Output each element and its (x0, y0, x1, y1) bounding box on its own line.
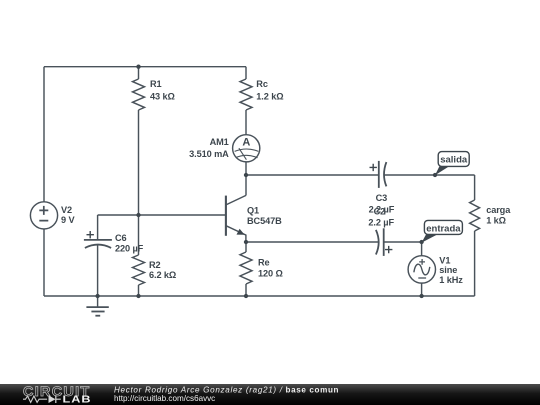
svg-text:9 V: 9 V (61, 215, 75, 225)
svg-text:C2: C2 (374, 206, 386, 216)
svg-text:salida: salida (440, 155, 468, 166)
svg-text:LAB: LAB (63, 394, 92, 405)
svg-text:R2: R2 (149, 260, 161, 270)
svg-text:Q1: Q1 (247, 206, 259, 216)
svg-text:2.2 µF: 2.2 µF (368, 217, 394, 227)
svg-text:1 kΩ: 1 kΩ (486, 215, 506, 225)
svg-text:6.2 kΩ: 6.2 kΩ (149, 270, 176, 280)
svg-text:http://circuitlab.com/cs6avvc: http://circuitlab.com/cs6avvc (114, 394, 215, 403)
svg-text:3.510 mA: 3.510 mA (189, 149, 229, 159)
svg-text:sine: sine (439, 265, 457, 275)
svg-text:43 kΩ: 43 kΩ (150, 92, 175, 102)
svg-text:V1: V1 (439, 255, 450, 265)
svg-text:C3: C3 (376, 193, 388, 203)
svg-text:1.2 kΩ: 1.2 kΩ (256, 92, 283, 102)
svg-text:V2: V2 (61, 205, 72, 215)
svg-text:carga: carga (486, 205, 511, 215)
svg-text:Rc: Rc (256, 79, 268, 89)
svg-text:Re: Re (258, 258, 270, 268)
svg-text:AM1: AM1 (210, 137, 229, 147)
svg-text:220 µF: 220 µF (115, 244, 144, 254)
svg-text:C6: C6 (115, 233, 127, 243)
svg-text:BC547B: BC547B (247, 216, 282, 226)
svg-text:120 Ω: 120 Ω (258, 268, 283, 278)
svg-text:1 kHz: 1 kHz (439, 275, 463, 285)
svg-text:base comun: base comun (286, 386, 339, 395)
svg-text:A: A (242, 136, 250, 148)
svg-text:R1: R1 (150, 79, 162, 89)
svg-text:entrada: entrada (426, 223, 461, 234)
